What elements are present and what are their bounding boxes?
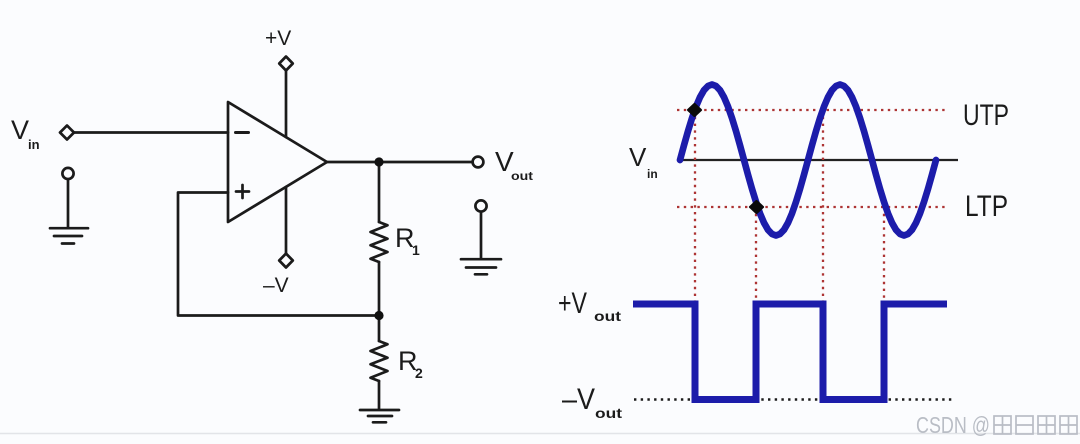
wire R2 to ground (378, 381, 381, 409)
watermark (916, 412, 1077, 438)
svg-text:V: V (11, 115, 29, 145)
terminal +V (279, 57, 293, 71)
crossing line t2 (755, 207, 757, 302)
waveform Vin sine (680, 85, 936, 236)
svg-text:CSDN @: CSDN @ (916, 412, 990, 438)
bottom rule (0, 433, 1080, 435)
junction node output (374, 157, 383, 166)
svg-text:+V: +V (265, 27, 291, 50)
wire Vin to inverting input (75, 131, 229, 134)
crossing line t3 (822, 110, 824, 302)
wire G3 stem (480, 212, 483, 258)
svg-text:out: out (511, 169, 533, 183)
wire G1 stem (67, 179, 70, 227)
terminal Vout (473, 157, 484, 168)
svg-text:–V: –V (562, 383, 595, 416)
ground G1 (50, 228, 88, 243)
ground G2 (360, 410, 399, 422)
wire node A to R2 (378, 316, 381, 342)
wire +V to op-amp (285, 71, 288, 137)
wire feedback (178, 193, 379, 316)
pin plus (236, 185, 249, 198)
marker diamond LTP crossing (750, 201, 763, 213)
svg-text:out: out (595, 405, 622, 421)
baseline -Vout dotted (634, 398, 952, 401)
junction node A (374, 311, 383, 320)
axis Vin zero line (681, 159, 958, 161)
svg-text:+V: +V (558, 287, 587, 320)
ground G3 (461, 259, 501, 274)
terminal -V (279, 254, 293, 268)
svg-text:UTP: UTP (963, 99, 1009, 132)
svg-text:–V: –V (263, 274, 289, 297)
pin minus (236, 131, 249, 134)
op-amp U1 (228, 102, 327, 222)
svg-text:in: in (647, 167, 658, 181)
threshold line LTP (677, 206, 946, 208)
wire R1 to node A (378, 262, 381, 316)
svg-text:V: V (629, 142, 647, 172)
threshold line UTP (677, 109, 946, 111)
waveform Vout square (633, 304, 947, 400)
ground G3 terminal (475, 200, 486, 211)
svg-text:2: 2 (415, 365, 423, 381)
resistor R2 (371, 341, 388, 381)
crossing line t1 (694, 110, 696, 302)
wire op-amp to -V (285, 187, 288, 253)
wire output (327, 161, 473, 164)
resistor R1 (371, 222, 388, 262)
wire output to R1 (378, 162, 381, 222)
svg-text:1: 1 (412, 242, 420, 258)
crossing line t4 (883, 207, 885, 302)
ground G1 terminal (62, 168, 73, 179)
svg-text:out: out (594, 308, 621, 324)
svg-text:LTP: LTP (965, 190, 1008, 223)
terminal Vin (diamond) (60, 126, 74, 140)
marker diamond UTP crossing (688, 104, 701, 116)
svg-text:in: in (28, 137, 40, 152)
